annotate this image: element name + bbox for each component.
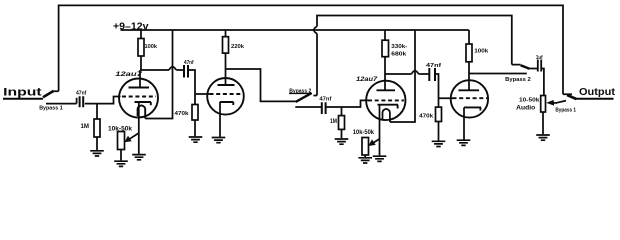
grid V2b: [453, 97, 488, 99]
input jack underline: [3, 98, 43, 100]
cathode V1b: [220, 102, 234, 105]
svg-text:470k: 470k: [419, 113, 434, 119]
wire cathode V2b to ground: [463, 107, 465, 139]
wire switch to C5: [529, 68, 537, 70]
resistor R3 470k grid V1b: [192, 105, 198, 121]
svg-text:220k: 220k: [231, 44, 245, 50]
svg-text:1M: 1M: [330, 118, 337, 125]
tube V1b: [207, 78, 244, 115]
grid V1a: [122, 96, 156, 98]
svg-text:12au7: 12au7: [356, 76, 378, 83]
capacitor C3 47nf coupling: [322, 102, 326, 114]
switch lever bypass2 right: [521, 65, 530, 69]
switch lever bypass1 input: [43, 91, 54, 97]
node input throw tick: [76, 98, 78, 104]
cathode V1a: [135, 102, 152, 105]
wire plate V1a to C2 with hop: [140, 67, 184, 70]
resistor R7 470k grid V2b: [436, 107, 442, 121]
plate V1b: [218, 84, 235, 86]
ground cathode V1a: [132, 155, 146, 160]
wire cathode V2a to ground: [379, 105, 381, 155]
resistor R5 1M grid V2a: [341, 107, 343, 116]
wire heater V2a to rail: [390, 30, 415, 122]
wire cathode V1a to ground: [138, 103, 140, 154]
svg-text:47nf: 47nf: [76, 91, 86, 97]
potentiometer P2 10k-50k: [362, 138, 369, 156]
ground R7: [432, 141, 446, 146]
resistor R6 330k-680k plate V2a: [384, 30, 386, 40]
ground cathode V2b: [457, 140, 471, 145]
node bypass2 mid contact foot: [313, 95, 317, 97]
capacitor C2 47nf coupling: [184, 65, 188, 78]
resistor R4 220k plate V1b: [225, 30, 227, 37]
grid V2a: [368, 99, 404, 101]
wire C5 to volume pot: [541, 69, 544, 96]
wire heater V1a to rail: [145, 30, 172, 119]
tube V1a 12au7: [119, 79, 158, 118]
svg-text:Bypass 1: Bypass 1: [555, 107, 576, 113]
ground P3: [536, 135, 550, 140]
svg-text:680k: 680k: [391, 52, 407, 58]
svg-text:330k-: 330k-: [391, 44, 407, 50]
wire plate V1b to bypass2 switch: [226, 69, 296, 101]
wire C4 to grid network V2b: [435, 74, 453, 107]
heater V2a: [383, 109, 390, 122]
wire C1 to grid V1a: [85, 97, 121, 104]
capacitor C5 1uf output: [538, 60, 541, 72]
svg-text:Input: Input: [3, 87, 42, 99]
wire input throw: [46, 103, 77, 105]
svg-text:10-50k: 10-50k: [519, 97, 540, 103]
tube V2a 12au7: [366, 81, 405, 120]
wire C3 to grid V2a: [326, 100, 369, 107]
heater V1a: [138, 105, 146, 118]
output jack underline: [576, 98, 614, 100]
svg-text:Bypass 2: Bypass 2: [505, 77, 531, 83]
svg-text:47nf: 47nf: [184, 60, 194, 66]
wire plate V2a to C4 with hop: [385, 71, 429, 74]
plate V1a: [129, 87, 150, 89]
svg-text:10k-50k: 10k-50k: [353, 129, 375, 136]
wire cathode V1b to ground: [219, 102, 221, 137]
svg-text:47nf: 47nf: [319, 96, 331, 102]
ground R5: [335, 139, 349, 144]
svg-text:Bypass 1: Bypass 1: [39, 106, 63, 112]
svg-text:100k: 100k: [145, 44, 158, 50]
ground cathode V1b: [212, 138, 226, 143]
svg-text:Audio: Audio: [516, 105, 535, 112]
potentiometer P1 10k-50k: [118, 132, 125, 150]
svg-text:1uf: 1uf: [536, 55, 543, 61]
svg-text:1M: 1M: [81, 123, 90, 130]
ground P1: [114, 161, 128, 166]
wire bypass1 top loop: [53, 5, 572, 94]
ground P2: [358, 158, 372, 163]
plate V2a: [377, 89, 396, 91]
switch lever bypass1 output: [567, 95, 576, 99]
wire switch to C3: [295, 106, 322, 108]
svg-text:47nf: 47nf: [426, 63, 441, 69]
switch lever bypass2 mid: [296, 93, 312, 102]
ground R1: [90, 151, 104, 156]
bypass2 mid label underline: [289, 92, 312, 94]
resistor R1 1M input: [96, 104, 98, 119]
resistor R8 100k plate V2b: [468, 30, 470, 44]
capacitor C4 47nf coupling: [429, 68, 435, 81]
ground R3: [189, 137, 203, 142]
wire bypass2 inner loop with hop over rail: [314, 16, 521, 96]
grid V1b: [210, 93, 243, 95]
svg-text:Bypass 2: Bypass 2: [289, 88, 311, 94]
cathode V2b: [464, 107, 481, 110]
svg-text:+9–12v: +9–12v: [113, 22, 149, 33]
resistor R2 100k plate V1a: [140, 30, 142, 39]
potentiometer P3 10-50k audio: [541, 96, 546, 113]
cathode V2a: [378, 105, 399, 109]
wiper arrow P2: [372, 139, 381, 145]
wiper arrow P3: [557, 101, 567, 103]
svg-text:12au7: 12au7: [115, 71, 143, 78]
wire C2 to grid network V1b: [188, 70, 210, 105]
wiper arrow P1: [128, 133, 139, 140]
tube V2b: [451, 80, 488, 117]
svg-text:Output: Output: [579, 87, 616, 98]
power rail +9-12v: [121, 29, 469, 31]
svg-text:10k-50k: 10k-50k: [108, 126, 133, 133]
capacitor C1 47nf input: [80, 96, 84, 107]
svg-text:100k: 100k: [474, 48, 489, 54]
ground cathode V2a: [373, 156, 387, 161]
plate V2b: [459, 89, 480, 91]
wire plate V2b to output switch: [469, 73, 527, 75]
svg-text:470k: 470k: [175, 111, 190, 117]
